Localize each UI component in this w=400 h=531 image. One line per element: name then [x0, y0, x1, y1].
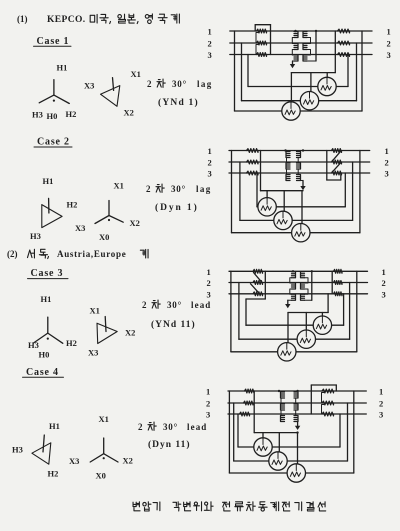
case2 delta phasor H: [42, 198, 62, 227]
svg-text:Case 4: Case 4: [26, 367, 59, 378]
svg-text:30°: 30°: [167, 300, 182, 310]
svg-text:3: 3: [208, 169, 212, 179]
svg-text:2: 2: [208, 39, 212, 49]
svg-text:(YNd 1): (YNd 1): [158, 97, 199, 108]
case1 differential relay coil 2: [300, 92, 318, 110]
case1 neutral ground arrow: [290, 61, 295, 68]
case3 bus riser wire: [327, 294, 329, 313]
svg-text:H2: H2: [67, 200, 78, 210]
case4 right CT group: [311, 385, 336, 416]
case4 delta labels: [12, 421, 60, 479]
case1 CT secondary loop wire 3: [248, 55, 348, 87]
svg-text:X3: X3: [69, 456, 79, 466]
svg-text:H0: H0: [47, 111, 58, 121]
svg-text:2: 2: [385, 158, 389, 168]
case3 CT secondary loop wire 1: [246, 294, 344, 325]
case1 wye labels: [32, 63, 76, 122]
case2 CT secondary loop wire 2: [240, 162, 353, 220]
svg-text:3: 3: [387, 50, 391, 60]
case3 wye phasor H: [34, 317, 63, 343]
svg-text:lead: lead: [191, 300, 211, 310]
svg-text:lag: lag: [197, 79, 213, 89]
svg-text:(2): (2): [7, 249, 18, 259]
svg-text:2: 2: [382, 278, 386, 288]
case4 phase line 1: [228, 390, 366, 392]
case1 vector group: [158, 97, 199, 108]
Case 4 heading: [23, 367, 64, 378]
case1 bus riser wire: [334, 31, 336, 73]
case3 delta labels: [88, 306, 135, 358]
svg-text:X0: X0: [99, 232, 109, 242]
case3 phase text: [142, 300, 211, 310]
case4 bus riser wire: [253, 391, 255, 433]
case3 relay common bus wire: [288, 312, 328, 314]
svg-text:X1: X1: [90, 306, 100, 316]
case2 vector group: [155, 202, 199, 213]
case3 CT secondary loop wire 2: [239, 283, 350, 340]
case2 left terminal labels 1 2 3: [208, 146, 212, 179]
case2 bus riser wire: [260, 151, 262, 191]
case2 relay common bus wire: [261, 190, 304, 192]
case1 relay common bus wire: [291, 72, 335, 74]
svg-text:3: 3: [206, 410, 210, 420]
case1 phase line 3: [230, 54, 372, 56]
case4 differential relay coil 1: [254, 438, 272, 456]
case4 left CT group: [240, 389, 255, 416]
case1 differential relay coil 3: [318, 77, 336, 95]
svg-text:1: 1: [208, 27, 212, 37]
svg-text:Case 3: Case 3: [31, 268, 64, 279]
case3 power transformer windings: [288, 271, 312, 300]
case2 left CT group: [247, 149, 259, 175]
case1 relay tap wires: [291, 73, 327, 102]
svg-text:2: 2: [142, 300, 147, 310]
case3 differential relay coil 3: [278, 343, 296, 361]
svg-text:H1: H1: [43, 176, 54, 186]
svg-text:Austria,Europe: Austria,Europe: [57, 249, 126, 259]
case4 CT secondary loop wire 2: [234, 403, 348, 461]
case4 wye phasor X: [90, 438, 118, 462]
svg-text:2: 2: [207, 278, 211, 288]
svg-text:30°: 30°: [171, 184, 186, 194]
case2 differential relay coil 2: [274, 211, 292, 229]
case3 junction dots: [292, 270, 313, 272]
case4 vector group: [148, 439, 191, 450]
svg-text:H3: H3: [32, 110, 43, 120]
svg-text:H1: H1: [41, 294, 52, 304]
case3 CT secondary loop wire 3: [231, 271, 357, 352]
case4 power transformer windings: [281, 392, 299, 422]
case1 delta phasor X: [101, 78, 120, 107]
case4 phase line 3: [228, 413, 366, 415]
case2 wye labels: [75, 181, 140, 242]
svg-text:X1: X1: [131, 69, 141, 79]
case2 neutral ground arrow: [300, 181, 305, 191]
svg-text:(Dyn 1): (Dyn 1): [155, 202, 199, 213]
case4 differential relay coil 3: [287, 464, 305, 482]
case1 left CT group: [255, 25, 270, 57]
case4 CT secondary loop wire 1: [238, 414, 340, 447]
svg-text:30°: 30°: [163, 422, 178, 432]
svg-text:(Dyn 11): (Dyn 11): [148, 439, 191, 450]
svg-text:KEPCO.: KEPCO.: [47, 15, 86, 25]
svg-text:2: 2: [208, 158, 212, 168]
svg-text:2: 2: [146, 184, 151, 194]
case3 phase line 1: [229, 270, 368, 272]
case1 right CT group: [338, 29, 350, 56]
case3 differential relay coil 1: [313, 316, 331, 334]
svg-text:H3: H3: [12, 445, 23, 455]
case3 right terminal labels 1 2 3: [382, 267, 386, 300]
svg-text:1: 1: [207, 267, 211, 277]
case3 delta phasor X: [97, 317, 117, 344]
case4 CT secondary loop wire 3: [229, 391, 353, 473]
svg-text:X2: X2: [125, 327, 135, 337]
svg-text:3: 3: [385, 169, 389, 179]
case2 junction dots: [284, 149, 304, 151]
svg-text:H2: H2: [66, 109, 77, 119]
case4 left terminal labels 1 2 3: [206, 387, 210, 420]
svg-text:Case 1: Case 1: [37, 36, 70, 47]
case1 CT secondary loop wire 2: [242, 43, 357, 101]
Case 2 heading: [34, 137, 72, 148]
svg-text:30°: 30°: [172, 79, 187, 89]
case3 right CT group: [332, 269, 342, 295]
case4 phase text: [138, 422, 207, 432]
svg-text:1: 1: [385, 146, 389, 156]
case4 junction dots: [278, 390, 299, 434]
svg-text:X3: X3: [88, 347, 98, 357]
case1 left terminal labels 1 2 3: [208, 27, 212, 61]
svg-text:H0: H0: [39, 350, 50, 360]
case1 delta labels: [84, 69, 141, 118]
svg-text:2: 2: [147, 79, 152, 89]
svg-text:H1: H1: [57, 63, 68, 73]
case1 wye phasor H: [39, 80, 69, 104]
case3 phase line 2: [229, 282, 368, 284]
case1 junction dots: [294, 30, 317, 32]
footer caption: [133, 502, 326, 511]
svg-text:(YNd 11): (YNd 11): [151, 319, 196, 330]
case2 right terminal labels 1 2 3: [385, 146, 389, 179]
case3 left CT group: [246, 269, 265, 299]
svg-text:3: 3: [379, 410, 383, 420]
case2 CT secondary loop wire 3: [232, 151, 360, 233]
svg-text:2: 2: [138, 422, 143, 432]
svg-text:2: 2: [387, 39, 391, 49]
case4 wye labels: [69, 414, 133, 481]
case3 relay tap wires: [288, 313, 322, 343]
svg-text:X1: X1: [114, 181, 124, 191]
case3 left terminal labels 1 2 3: [207, 267, 211, 300]
case3 wye labels: [28, 294, 77, 360]
case2 right CT group: [327, 149, 342, 180]
case4 right terminal labels 1 2 3: [379, 387, 383, 420]
case2 phase line 3: [229, 172, 370, 174]
svg-text:2: 2: [206, 399, 210, 409]
svg-text:lead: lead: [187, 422, 207, 432]
case1 differential relay coil 1: [282, 102, 300, 120]
section heading (1) KEPCO countries: [17, 14, 179, 25]
case4 relay common bus wire: [254, 432, 297, 434]
svg-text:X2: X2: [123, 456, 133, 466]
svg-text:1: 1: [379, 387, 383, 397]
case3 differential relay coil 2: [297, 330, 315, 348]
svg-text:lag: lag: [196, 184, 212, 194]
svg-text:3: 3: [382, 289, 386, 299]
svg-text:1: 1: [206, 387, 210, 397]
case1 power transformer windings: [292, 31, 316, 61]
case2 differential relay coil 3: [292, 224, 310, 242]
case2 differential relay coil 1: [258, 198, 276, 216]
case1 CT secondary loop wire 1: [235, 31, 363, 111]
section heading (2) West Germany: [7, 249, 148, 259]
svg-text:X3: X3: [75, 223, 85, 233]
svg-text:(1): (1): [17, 14, 28, 24]
case2 wye phasor X: [95, 201, 123, 224]
case2 phase text: [146, 184, 212, 194]
svg-text:1: 1: [382, 267, 386, 277]
case2 phase line 1: [229, 150, 370, 152]
case1 phase line 2: [230, 42, 372, 44]
svg-text:X2: X2: [124, 108, 134, 118]
case4 delta phasor H: [32, 435, 51, 464]
svg-text:X0: X0: [96, 471, 106, 481]
case4 neutral ground arrow: [295, 422, 300, 431]
svg-text:H3: H3: [28, 340, 39, 350]
case2 phase line 2: [229, 161, 370, 163]
case2 relay tap wires: [267, 191, 302, 224]
svg-text:X1: X1: [99, 414, 109, 424]
case3 vector group: [151, 319, 196, 330]
svg-text:H3: H3: [30, 231, 41, 241]
svg-text:H2: H2: [48, 469, 59, 479]
case4 phase line 2: [228, 402, 366, 404]
case4 differential relay coil 2: [269, 452, 287, 470]
Case 3 heading: [28, 268, 69, 279]
svg-text:3: 3: [208, 50, 212, 60]
case3 neutral ground arrow: [285, 300, 290, 308]
case1 right terminal labels 1 2 3: [387, 27, 391, 61]
svg-text:2: 2: [379, 399, 383, 409]
svg-text:3: 3: [207, 289, 211, 299]
Case 1 heading: [34, 36, 72, 47]
svg-text:1: 1: [208, 146, 212, 156]
case2 power transformer windings: [286, 152, 303, 181]
case4 relay tap wires: [263, 433, 298, 464]
case3 phase line 3: [229, 293, 368, 295]
case1 phase line 1: [230, 30, 372, 32]
svg-text:X3: X3: [84, 80, 94, 90]
svg-text:H2: H2: [66, 338, 77, 348]
case2 delta labels: [30, 176, 77, 241]
svg-text:H1: H1: [49, 421, 60, 431]
svg-text:1: 1: [387, 27, 391, 37]
svg-text:Case 2: Case 2: [37, 137, 70, 148]
case1 phase text: [147, 79, 213, 89]
case2 CT secondary loop wire 1: [257, 173, 345, 207]
svg-text:X2: X2: [130, 218, 140, 228]
